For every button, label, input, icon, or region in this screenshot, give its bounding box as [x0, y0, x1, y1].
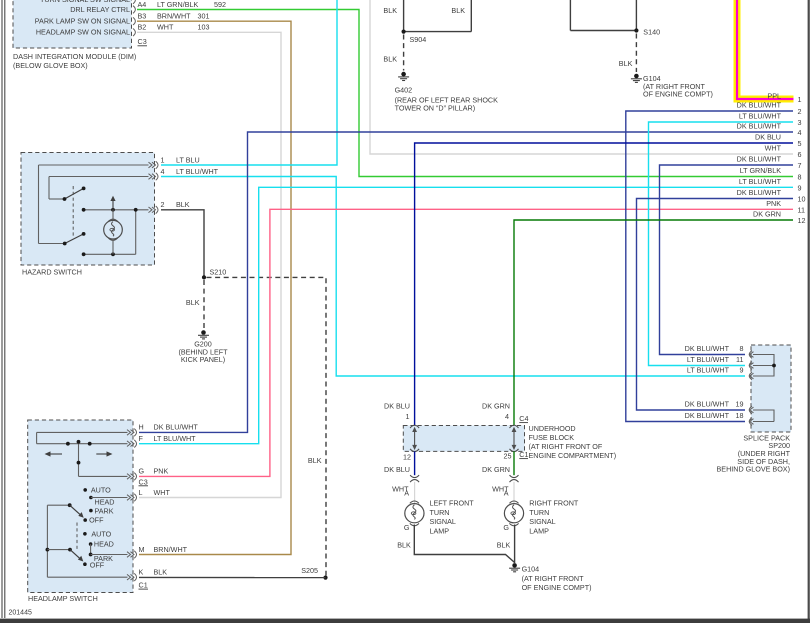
svg-text:301: 301 — [198, 12, 210, 21]
net label pin 10 DK BLU/WHT at right edge — [737, 188, 806, 204]
svg-text:12: 12 — [798, 216, 806, 225]
node S904 — [402, 30, 427, 45]
svg-text:KICK PANEL): KICK PANEL) — [181, 355, 225, 364]
headlamp switch upper pole blade — [47, 498, 127, 518]
wire BLK right vertical to splice S904 — [404, 0, 472, 32]
lamp RIGHT FRONT TURN SIGNAL LAMP — [503, 499, 578, 536]
node S210 — [202, 268, 226, 280]
hazard switch pole 2 blade — [63, 232, 86, 245]
svg-text:C4: C4 — [519, 414, 528, 423]
svg-text:DK BLU/WHT: DK BLU/WHT — [737, 122, 782, 131]
svg-text:FUSE BLOCK: FUSE BLOCK — [529, 433, 575, 442]
svg-text:G402: G402 — [395, 86, 413, 95]
wire BLK dashed from S210 to node S205 — [207, 277, 327, 575]
svg-text:PARK LAMP SW ON SIGNAL: PARK LAMP SW ON SIGNAL — [35, 17, 130, 26]
svg-text:4: 4 — [161, 167, 165, 176]
headlamp switch slider arrows — [45, 451, 113, 456]
lamp LEFT FRONT TURN SIGNAL LAMP — [404, 499, 474, 536]
svg-text:19: 19 — [736, 400, 744, 409]
svg-text:PNK: PNK — [154, 467, 169, 476]
svg-text:HEADLAMP SWITCH: HEADLAMP SWITCH — [28, 594, 98, 603]
hazard switch pin 2 connector — [149, 200, 190, 214]
svg-text:BLK: BLK — [176, 200, 190, 209]
wire BLK dashed from S140 to ground G104 — [619, 34, 637, 73]
wire DK BLU/WHT right edge pin 2 to splice pack pin 18 — [626, 111, 793, 422]
fuse block pin 4 label — [482, 402, 510, 422]
net label pin 9 LT BLU/WHT at right edge — [739, 177, 802, 193]
fuse block left feed-through arrow — [410, 425, 419, 451]
svg-text:HAZARD SWITCH: HAZARD SWITCH — [22, 268, 82, 277]
wire DK BLU right edge pin 5 to underhood fuse block pin 1 — [415, 143, 793, 426]
svg-text:AUTO: AUTO — [91, 485, 111, 494]
svg-text:G104: G104 — [522, 565, 540, 574]
svg-text:BLK: BLK — [383, 55, 397, 64]
svg-text:BRN/WHT: BRN/WHT — [157, 12, 191, 21]
net label pin 3 LT BLU/WHT at right edge — [739, 112, 802, 128]
net label pin 8 LT GRN/BLK at right edge — [740, 166, 802, 182]
svg-text:103: 103 — [198, 23, 210, 32]
wire LT GRN/BLK 592 from DIM A4 to right edge pin 8 — [137, 10, 793, 177]
hazard switch pin 1 connector — [149, 156, 200, 169]
node S140 — [634, 28, 660, 37]
svg-text:18: 18 — [736, 411, 744, 420]
wire LT BLU from hazard switch pin 1 to top edge — [161, 0, 337, 165]
svg-text:2: 2 — [798, 107, 802, 116]
svg-text:S210: S210 — [210, 268, 227, 277]
wire PPL with yellow tracer from top edge to right edge pin 1 — [737, 0, 794, 99]
svg-text:RIGHT FRONT: RIGHT FRONT — [529, 499, 579, 508]
svg-text:HEAD: HEAD — [95, 497, 115, 506]
svg-text:PNK: PNK — [766, 199, 781, 208]
svg-text:12: 12 — [403, 453, 411, 462]
svg-text:5: 5 — [798, 139, 802, 148]
ground G200 (behind left kick panel) — [178, 330, 228, 364]
svg-text:DK BLU/WHT: DK BLU/WHT — [685, 411, 730, 420]
headlamp switch pin F connector — [127, 434, 196, 448]
svg-text:DK GRN: DK GRN — [482, 402, 510, 411]
svg-text:TURN SIGNAL SW SIGNAL: TURN SIGNAL SW SIGNAL — [40, 0, 130, 4]
headlamp switch pin M connector — [127, 545, 188, 559]
wire LT BLU/WHT from hazard pin 4 to splice pack pin 9 — [161, 177, 745, 377]
ground G402 (rear of left rear shock tower) — [395, 72, 499, 113]
headlamp switch pin G connector — [127, 467, 168, 481]
svg-text:AUTO: AUTO — [91, 530, 111, 539]
module DIM (Dash Integration Module), connector C3 — [13, 0, 147, 70]
svg-text:WHT: WHT — [765, 144, 782, 153]
switch assembly HEADLAMP SWITCH box — [28, 420, 133, 603]
svg-text:DK BLU/WHT: DK BLU/WHT — [154, 423, 199, 432]
svg-text:DK BLU/WHT: DK BLU/WHT — [737, 101, 782, 110]
headlamp switch lower position contacts AUTO/HEAD/PARK/OFF — [83, 530, 127, 570]
svg-text:11: 11 — [798, 206, 805, 215]
svg-text:LT BLU/WHT: LT BLU/WHT — [154, 434, 197, 443]
hazard indicator lamp — [104, 210, 123, 255]
svg-text:BRN/WHT: BRN/WHT — [154, 545, 188, 554]
svg-text:SIGNAL: SIGNAL — [430, 517, 456, 526]
net label pin 2 DK BLU/WHT at right edge — [737, 101, 802, 117]
svg-text:M: M — [139, 545, 145, 554]
svg-text:HEADLAMP SW ON SIGNAL: HEADLAMP SW ON SIGNAL — [36, 28, 130, 37]
wire DK BLU/WHT right edge pin 7 to splice pack pin 8 — [660, 165, 794, 355]
wire BLK dashed from S210 to ground G200 — [186, 280, 204, 330]
svg-text:LEFT FRONT: LEFT FRONT — [430, 499, 475, 508]
svg-text:DK BLU/WHT: DK BLU/WHT — [685, 344, 730, 353]
splice pack internal bus (pins 19, 18) — [753, 410, 774, 422]
svg-text:9: 9 — [798, 184, 802, 193]
net label pin 4 DK BLU/WHT at right edge — [737, 122, 802, 138]
headlamp switch pin H connector — [127, 423, 198, 437]
svg-text:4: 4 — [505, 412, 509, 421]
svg-text:S904: S904 — [410, 35, 427, 44]
svg-text:G: G — [404, 523, 410, 532]
DIM pin A4 label, wire LT GRN/BLK circuit 592 — [138, 0, 227, 9]
wire DK BLU/WHT right edge pin 10 to splice pack pin 19 — [637, 199, 794, 411]
fuse block pin 25 label — [504, 452, 512, 461]
headlamp switch common wiring — [46, 505, 128, 577]
svg-text:C1: C1 — [519, 450, 528, 459]
inline connector on right lamp feed — [510, 475, 519, 482]
svg-text:10: 10 — [798, 195, 806, 204]
svg-text:K: K — [139, 568, 144, 577]
headlamp switch pin L connector — [127, 488, 170, 502]
splice pack SP200 box — [717, 345, 792, 474]
svg-text:S205: S205 — [301, 566, 318, 575]
splice pack pin 9 entry — [687, 366, 754, 380]
svg-text:B2: B2 — [138, 23, 147, 32]
switch assembly HAZARD SWITCH box — [21, 153, 155, 277]
svg-text:L: L — [139, 488, 143, 497]
svg-text:201445: 201445 — [9, 610, 32, 617]
net label pin 12 DK GRN at right edge — [753, 210, 805, 226]
svg-text:DK GRN: DK GRN — [482, 465, 510, 474]
ground G104 (at right front of engine compt, lamps) — [509, 563, 591, 592]
svg-text:C1: C1 — [139, 581, 148, 590]
headlamp switch mechanical link (dashed) — [76, 523, 78, 550]
svg-text:DK BLU/WHT: DK BLU/WHT — [737, 155, 782, 164]
splice pack pin 8 entry — [685, 344, 754, 358]
svg-text:S140: S140 — [643, 28, 660, 37]
svg-text:C3: C3 — [138, 37, 147, 46]
svg-text:1: 1 — [798, 95, 802, 104]
fuse block pin 1 label — [384, 402, 410, 422]
wire LT BLU/WHT right edge pin 3 to splice pack pin 11 — [649, 122, 794, 366]
fuse block connector C1 label — [519, 450, 528, 459]
svg-text:(AT RIGHT FRONT: (AT RIGHT FRONT — [522, 574, 584, 583]
svg-text:(BELOW GLOVE BOX): (BELOW GLOVE BOX) — [13, 61, 88, 70]
svg-text:2: 2 — [161, 200, 165, 209]
svg-text:G: G — [503, 523, 509, 532]
svg-text:LT BLU/WHT: LT BLU/WHT — [176, 167, 219, 176]
wire BLK from left lamp pin G to ground G104 — [397, 525, 514, 563]
svg-text:LT GRN/BLK: LT GRN/BLK — [740, 166, 781, 175]
svg-text:4: 4 — [798, 128, 802, 137]
svg-text:9: 9 — [740, 366, 744, 375]
svg-text:DK GRN: DK GRN — [753, 210, 781, 219]
svg-text:DRL RELAY CTRL: DRL RELAY CTRL — [70, 5, 130, 14]
svg-text:A4: A4 — [138, 0, 147, 9]
svg-text:LT BLU/WHT: LT BLU/WHT — [687, 355, 730, 364]
svg-text:3: 3 — [798, 118, 802, 127]
svg-text:OFF: OFF — [90, 561, 105, 570]
svg-text:BLK: BLK — [308, 456, 322, 465]
DIM pin B3 label, wire BRN/WHT circuit 301 — [138, 12, 210, 21]
svg-text:BLK: BLK — [397, 541, 411, 550]
svg-text:592: 592 — [214, 0, 226, 9]
svg-text:BLK: BLK — [383, 6, 397, 15]
svg-text:11: 11 — [736, 355, 743, 364]
splice pack internal bus (pins 8, 11, 9) — [753, 355, 776, 377]
wire WHT to right lamp pin A — [492, 482, 514, 503]
hazard switch indicator arrow — [110, 196, 115, 210]
wire BLK left vertical to splice S904 — [383, 0, 403, 32]
svg-text:C3: C3 — [139, 477, 148, 486]
svg-text:SIGNAL: SIGNAL — [529, 517, 555, 526]
svg-text:A: A — [504, 489, 509, 498]
svg-text:LT BLU/WHT: LT BLU/WHT — [739, 177, 782, 186]
splice pack pin 19 entry — [685, 400, 754, 414]
net label pin 1 PPL at right edge — [767, 92, 801, 105]
svg-text:BLK: BLK — [451, 6, 465, 15]
hazard switch pole 1 blade — [63, 187, 86, 201]
hazard switch junction dots — [82, 208, 138, 256]
svg-text:A: A — [404, 489, 409, 498]
svg-text:F: F — [139, 434, 144, 443]
svg-text:DASH INTEGRATION MODULE (DIM): DASH INTEGRATION MODULE (DIM) — [13, 52, 136, 61]
module UNDERHOOD FUSE BLOCK box — [403, 424, 616, 460]
svg-text:LAMP: LAMP — [529, 526, 549, 535]
wire DK GRN from fuse block pin 25 to right lamp connector — [482, 451, 514, 475]
splice pack pin 11 entry — [687, 355, 754, 369]
inline connector on left lamp feed — [410, 475, 419, 482]
svg-text:OFF: OFF — [89, 515, 104, 524]
wire BRN/WHT 301 from DIM B3 to headlamp switch pin M — [137, 21, 291, 554]
svg-text:BLK: BLK — [619, 59, 633, 68]
svg-text:1: 1 — [406, 412, 410, 421]
wire WHT from top edge to right edge pin 6 — [370, 0, 793, 154]
svg-text:6: 6 — [798, 150, 802, 159]
wire DK GRN right edge pin 12 to underhood fuse block pin 4 — [514, 220, 793, 426]
svg-text:PPL: PPL — [767, 92, 781, 101]
wire BLK dashed from S904 to ground G402 — [383, 35, 403, 71]
svg-text:DK BLU/WHT: DK BLU/WHT — [685, 400, 730, 409]
svg-text:B3: B3 — [138, 12, 147, 21]
wire DK BLU from fuse block pin 12 to left lamp connector — [384, 451, 415, 475]
wire BLK right vertical to splice S140 — [635, 0, 637, 31]
fuse block pin 12 label — [403, 453, 411, 462]
svg-text:7: 7 — [798, 161, 802, 170]
headlamp switch connector C3 label — [139, 477, 149, 486]
wire BLK from hazard pin 2 to node S210 — [161, 210, 204, 276]
svg-text:BLK: BLK — [497, 541, 511, 550]
wire BLK from right lamp pin G to ground G104 — [497, 525, 515, 564]
svg-text:LT BLU: LT BLU — [176, 156, 200, 165]
svg-text:HEAD: HEAD — [94, 540, 114, 549]
fuse block right feed-through arrow — [510, 425, 519, 451]
svg-text:LT BLU/WHT: LT BLU/WHT — [687, 366, 730, 375]
svg-text:ENGINE COMPARTMENT): ENGINE COMPARTMENT) — [529, 451, 617, 460]
splice pack pin 18 entry — [685, 411, 754, 425]
wire DK BLU/WHT from headlamp pin H to right edge pin 4 — [139, 132, 793, 432]
svg-text:H: H — [139, 423, 144, 432]
hazard switch internal wiring — [39, 165, 149, 254]
wire LT BLU/WHT from headlamp pin F to right edge pin 9 — [139, 187, 793, 443]
svg-text:BEHIND GLOVE BOX): BEHIND GLOVE BOX) — [717, 465, 791, 474]
wire BLK left vertical to splice S140 — [570, 0, 636, 31]
hazard switch mechanical link (dashed) — [72, 186, 74, 237]
svg-text:TURN: TURN — [529, 508, 549, 517]
net label pin 11 PNK at right edge — [766, 199, 805, 215]
headlamp switch upper position contacts AUTO/HEAD/PARK/OFF — [83, 485, 114, 524]
svg-text:LAMP: LAMP — [430, 526, 450, 535]
svg-text:UNDERHOOD: UNDERHOOD — [529, 424, 576, 433]
svg-text:1: 1 — [161, 156, 165, 165]
svg-text:BLK: BLK — [154, 568, 168, 577]
wire PNK from headlamp pin G to right edge pin 11 — [139, 209, 793, 476]
hazard switch pin 4 connector — [149, 167, 219, 180]
svg-text:BLK: BLK — [186, 298, 200, 307]
svg-text:8: 8 — [798, 173, 802, 182]
svg-text:DK BLU/WHT: DK BLU/WHT — [737, 188, 782, 197]
fuse block connector C4 label — [519, 414, 528, 423]
headlamp switch slider section wiring — [37, 432, 128, 476]
svg-text:LT GRN/BLK: LT GRN/BLK — [157, 0, 198, 9]
svg-text:WHT: WHT — [157, 23, 174, 32]
svg-text:G: G — [139, 467, 145, 476]
svg-text:DK BLU: DK BLU — [384, 465, 410, 474]
DIM pin B2 label, wire WHT circuit 103 — [138, 23, 210, 32]
headlamp switch pin K connector — [127, 568, 167, 582]
svg-text:25: 25 — [504, 452, 512, 461]
wire WHT 103 from DIM B2 to headlamp switch pin L — [137, 32, 281, 497]
headlamp switch connector C1 label — [139, 581, 149, 590]
svg-text:TOWER ON “D” PILLAR): TOWER ON “D” PILLAR) — [395, 104, 476, 113]
svg-text:OF ENGINE COMPT): OF ENGINE COMPT) — [643, 90, 713, 99]
net label pin 7 DK BLU/WHT at right edge — [737, 155, 802, 171]
svg-text:OF ENGINE COMPT): OF ENGINE COMPT) — [522, 583, 592, 592]
svg-text:PARK: PARK — [95, 506, 114, 515]
svg-text:DK BLU: DK BLU — [384, 402, 410, 411]
svg-text:8: 8 — [740, 344, 744, 353]
wire WHT to left lamp pin A — [392, 482, 414, 503]
svg-text:WHT: WHT — [154, 488, 171, 497]
svg-text:LT BLU/WHT: LT BLU/WHT — [739, 112, 782, 121]
svg-text:(AT RIGHT FRONT OF: (AT RIGHT FRONT OF — [529, 442, 603, 451]
wire BLK from headlamp pin K to node S205 — [139, 576, 326, 578]
svg-text:TURN: TURN — [430, 508, 450, 517]
net label pin 5 DK BLU at right edge — [755, 133, 801, 149]
node S205 — [301, 566, 327, 580]
net label pin 6 WHT at right edge — [765, 144, 802, 160]
ground G104 (at right front of engine compt) — [631, 74, 713, 99]
svg-text:DK BLU: DK BLU — [755, 133, 781, 142]
headlamp switch lower pole blade — [68, 548, 83, 562]
